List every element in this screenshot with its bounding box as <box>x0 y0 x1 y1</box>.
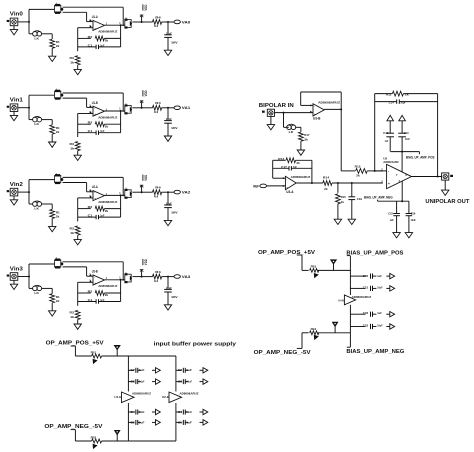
wire (output) <box>104 194 125 196</box>
svg-text:OP_AMP_POS_+5V: OP_AMP_POS_+5V <box>46 340 105 346</box>
ground (right) <box>152 369 156 371</box>
svg-text:BIAS_UP_AMP_NEG: BIAS_UP_AMP_NEG <box>346 349 404 355</box>
svg-text:1nF: 1nF <box>100 43 104 47</box>
svg-text:49.9: 49.9 <box>154 279 158 283</box>
op-amp U1-E power symbol <box>122 392 135 403</box>
jumper link LK1 <box>55 5 61 12</box>
wire <box>18 107 29 109</box>
svg-text:R17: R17 <box>304 133 310 137</box>
wire <box>42 33 53 35</box>
op-amp U2-B <box>93 275 104 285</box>
svg-text:C4: C4 <box>130 410 135 414</box>
resistor R1 <box>50 39 55 48</box>
bypass capacitor C22 <box>350 313 365 315</box>
jumper link LK10 <box>55 260 61 267</box>
resistor R12 (bipolar to summing node) <box>341 170 355 172</box>
svg-text:2k: 2k <box>304 137 308 141</box>
ground (right) <box>152 411 156 413</box>
svg-text:VA2: VA2 <box>182 191 191 195</box>
svg-text:C22: C22 <box>363 311 369 315</box>
wire <box>318 332 351 334</box>
wire <box>374 94 376 171</box>
svg-text:2k: 2k <box>297 161 301 165</box>
jumper link LK5 <box>33 117 38 122</box>
wire <box>332 182 383 184</box>
wire (feedback) <box>301 91 342 93</box>
wire (pos rail) <box>349 256 351 295</box>
svg-text:C1: C1 <box>88 129 93 133</box>
svg-text:C21: C21 <box>363 286 369 290</box>
ferrite bead FB3 <box>310 269 319 273</box>
resistor R5 <box>50 125 55 134</box>
ground <box>74 240 81 245</box>
svg-text:UNIPOLAR OUT: UNIPOLAR OUT <box>425 199 470 205</box>
capacitor C2 shunt <box>167 22 169 34</box>
jumper link LK11 <box>33 286 38 291</box>
svg-text:1uF: 1uF <box>390 218 394 222</box>
ground (right) <box>386 326 390 328</box>
wire <box>275 112 314 114</box>
op-amp U3-A (reference buffer) <box>285 176 296 189</box>
svg-text:+: + <box>388 182 390 186</box>
svg-text:R12: R12 <box>355 164 361 168</box>
feedback capacitor C1 <box>78 46 97 48</box>
svg-text:U4-B: U4-B <box>338 299 344 303</box>
svg-text:LK: LK <box>34 291 39 295</box>
wire <box>318 269 351 271</box>
svg-text:10pF: 10pF <box>400 101 406 105</box>
connector J6 (unipolar output) <box>442 173 449 180</box>
wire <box>122 262 124 280</box>
svg-text:+: + <box>94 281 96 285</box>
resistor R3 to ground <box>75 56 80 65</box>
capacitor C19 <box>351 183 353 197</box>
svg-text:AD8608ARUZ: AD8608ARUZ <box>98 30 117 34</box>
svg-text:VDD: VDD <box>144 259 148 265</box>
svg-text:U3-B: U3-B <box>313 116 321 120</box>
wire <box>122 7 124 25</box>
svg-text:BIAS_UP_AMP_POS: BIAS_UP_AMP_POS <box>346 250 404 256</box>
ground <box>49 56 56 61</box>
svg-text:VA1: VA1 <box>182 106 191 110</box>
svg-text:+: + <box>286 185 288 189</box>
ground <box>13 26 15 30</box>
svg-text:AD8608ARUZ: AD8608ARUZ <box>98 200 117 204</box>
ground <box>164 305 171 310</box>
wire (- input) <box>273 177 286 179</box>
wire <box>132 191 141 193</box>
svg-text:10uF: 10uF <box>411 218 416 222</box>
svg-text:FB3: FB3 <box>311 265 317 269</box>
svg-text:C1: C1 <box>88 298 93 302</box>
svg-text:+: + <box>94 112 96 116</box>
ferrite bead FB2 <box>92 439 102 443</box>
ground (right) <box>386 313 390 315</box>
wire <box>120 280 122 302</box>
jumper link LK4 <box>55 91 61 98</box>
svg-text:R14: R14 <box>323 175 330 179</box>
net tag VA0 <box>168 21 174 23</box>
wire <box>77 28 79 52</box>
wire <box>297 347 302 349</box>
svg-text:C5: C5 <box>178 420 183 424</box>
wire <box>71 429 76 431</box>
supply flag (neg) <box>393 233 400 238</box>
connector J4 (Vin3 input) <box>10 273 18 281</box>
svg-text:-: - <box>388 170 389 174</box>
svg-text:1k: 1k <box>70 146 74 150</box>
wire <box>122 93 124 111</box>
ground (right) <box>386 287 390 289</box>
ground <box>49 226 56 231</box>
ground (right) <box>200 369 204 371</box>
wire <box>340 109 342 170</box>
wire <box>28 108 30 120</box>
svg-text:U1-E: U1-E <box>114 395 121 399</box>
svg-text:VA0: VA0 <box>182 20 191 24</box>
svg-text:input buffer power supply: input buffer power supply <box>154 342 237 348</box>
wire <box>77 114 79 138</box>
svg-text:R15: R15 <box>341 195 346 199</box>
svg-text:AD8608ARUZ: AD8608ARUZ <box>180 391 199 395</box>
svg-text:2k: 2k <box>56 44 60 48</box>
svg-text:2k: 2k <box>56 130 60 134</box>
wire <box>63 11 87 13</box>
svg-text:22uF: 22uF <box>166 117 172 121</box>
svg-text:AD8608ARUZ: AD8608ARUZ <box>132 391 151 395</box>
svg-text:C13: C13 <box>404 131 409 135</box>
wire <box>283 113 285 128</box>
svg-text:1nF: 1nF <box>293 165 297 169</box>
svg-text:R2: R2 <box>88 290 93 294</box>
svg-text:1uF: 1uF <box>385 139 389 143</box>
svg-text:2k: 2k <box>105 293 109 297</box>
wire <box>63 176 124 178</box>
resistor R11 to ground <box>75 226 80 235</box>
ground <box>49 311 56 316</box>
power flag +5V <box>116 349 118 356</box>
connector J5 (bipolar input) <box>267 109 274 116</box>
svg-text:OP_AMP_POS_+5V: OP_AMP_POS_+5V <box>258 250 316 256</box>
wire <box>28 22 30 34</box>
op-amp U1-A <box>93 20 104 30</box>
ferrite bead L2 <box>125 20 131 28</box>
power flag VDD <box>141 101 143 108</box>
svg-text:10uF: 10uF <box>377 286 383 290</box>
svg-text:LK: LK <box>34 122 39 126</box>
ground (right) <box>200 381 204 383</box>
svg-text:Vin2: Vin2 <box>10 182 23 188</box>
wire (output) <box>104 279 125 281</box>
svg-text:16V: 16V <box>171 211 178 215</box>
svg-text:C15: C15 <box>388 211 393 215</box>
svg-text:-: - <box>94 20 95 24</box>
bypass capacitor C5' <box>176 421 182 423</box>
wire <box>28 277 30 289</box>
resistor R13 <box>50 294 55 303</box>
output port arrow <box>444 180 446 190</box>
wire <box>120 25 122 47</box>
wire <box>18 276 29 278</box>
svg-text:C1: C1 <box>88 214 93 218</box>
op-amp U1-B <box>93 106 104 116</box>
feedback resistor R6 <box>78 123 91 125</box>
svg-text:C17: C17 <box>281 165 287 169</box>
ground <box>13 196 15 200</box>
svg-text:AD8608ARUZ: AD8608ARUZ <box>318 101 340 105</box>
wire <box>297 254 302 256</box>
power flag VDD <box>141 270 143 277</box>
wire <box>28 192 30 204</box>
svg-text:C2: C2 <box>130 368 135 372</box>
svg-text:Vin0: Vin0 <box>10 12 23 18</box>
ground <box>164 136 171 141</box>
wire <box>71 345 76 347</box>
ground (right) <box>200 421 204 423</box>
svg-text:2k: 2k <box>105 124 109 128</box>
svg-text:+: + <box>94 197 96 201</box>
svg-text:VDD: VDD <box>144 174 148 180</box>
wire <box>28 180 30 193</box>
wire <box>63 97 87 99</box>
svg-text:C5: C5 <box>130 420 135 424</box>
svg-text:2k: 2k <box>56 214 60 218</box>
jumper link LK2 <box>33 32 38 37</box>
svg-text:22uF: 22uF <box>166 31 172 35</box>
op-amp U5 AD8021 <box>387 164 412 188</box>
svg-text:C12: C12 <box>383 131 389 135</box>
feedback capacitor C13 <box>78 301 97 303</box>
svg-text:2k: 2k <box>56 299 60 303</box>
capacitor C10 shunt <box>167 192 169 204</box>
bypass capacitor C15 <box>396 201 398 213</box>
wire <box>18 21 29 23</box>
ground <box>164 50 171 55</box>
svg-text:22uF: 22uF <box>166 286 172 290</box>
svg-text:-: - <box>94 275 95 279</box>
svg-text:U3-A: U3-A <box>286 190 294 194</box>
net tag VA3 <box>168 276 174 278</box>
svg-text:R2: R2 <box>88 205 93 209</box>
ferrite bead L5 <box>125 274 131 282</box>
wire <box>120 111 122 133</box>
svg-text:C2: C2 <box>178 368 183 372</box>
wire <box>63 182 87 184</box>
feedback capacitor C14 <box>375 101 397 103</box>
svg-text:+: + <box>94 26 96 30</box>
svg-text:1nF: 1nF <box>100 214 104 218</box>
svg-text:1uF: 1uF <box>377 311 382 315</box>
resistor R8 49.9 <box>142 107 153 109</box>
ground <box>74 155 81 160</box>
svg-text:U2-A: U2-A <box>92 185 98 189</box>
wire <box>300 92 302 105</box>
svg-text:FB4: FB4 <box>311 327 317 331</box>
wire (output) <box>412 176 442 178</box>
svg-text:U1-A: U1-A <box>92 15 98 19</box>
svg-text:C23: C23 <box>363 324 369 328</box>
svg-text:7: 7 <box>396 173 398 177</box>
ground (right) <box>152 381 156 383</box>
svg-text:1k: 1k <box>70 231 74 235</box>
svg-text:16V: 16V <box>171 295 178 299</box>
svg-text:0.1uF: 0.1uF <box>186 380 192 384</box>
power flag -5V <box>334 326 336 332</box>
wire <box>296 126 301 128</box>
bypass capacitor C20 <box>350 275 365 277</box>
ferrite bead L3 <box>125 105 131 113</box>
feedback resistor R11 <box>375 93 393 95</box>
resistor R15 to ground <box>75 310 80 319</box>
bypass capacitor C5 <box>128 421 134 423</box>
svg-text:R11: R11 <box>386 93 392 97</box>
svg-text:0.1uF: 0.1uF <box>186 410 192 414</box>
resistor R14 <box>323 181 332 186</box>
ground <box>270 116 272 124</box>
svg-text:2k: 2k <box>356 173 360 177</box>
wire <box>63 266 87 268</box>
svg-text:16V: 16V <box>171 40 178 44</box>
svg-text:C1: C1 <box>88 43 93 47</box>
svg-text:C4: C4 <box>178 410 183 414</box>
svg-text:LK: LK <box>34 36 39 40</box>
svg-text:C19: C19 <box>357 197 363 201</box>
svg-text:-: - <box>286 177 287 181</box>
svg-text:0.1uF: 0.1uF <box>139 380 145 384</box>
ground <box>334 219 341 224</box>
svg-text:R3: R3 <box>70 311 75 315</box>
svg-text:R4: R4 <box>155 186 161 190</box>
svg-text:REF: REF <box>253 184 259 188</box>
svg-text:49.9: 49.9 <box>154 110 158 114</box>
power flag VDD <box>141 185 143 192</box>
svg-text:FB1: FB1 <box>91 351 97 355</box>
wire (- input) <box>375 170 387 172</box>
feedback capacitor C17 <box>273 167 290 169</box>
wire <box>102 440 129 442</box>
resistor R15 to ground <box>337 183 339 193</box>
ferrite bead FB1 <box>92 354 102 358</box>
svg-text:22uF: 22uF <box>166 202 172 206</box>
ground (right) <box>200 411 204 413</box>
svg-text:R3: R3 <box>70 56 75 60</box>
ground <box>13 112 15 116</box>
svg-text:LK: LK <box>289 130 294 134</box>
svg-text:U2-B: U2-B <box>92 270 98 274</box>
ferrite bead L4 <box>125 190 131 198</box>
wire <box>132 21 141 23</box>
ground <box>13 280 15 284</box>
feedback resistor R2 <box>78 37 91 39</box>
svg-text:1k: 1k <box>70 61 74 65</box>
resistor R4 49.9 <box>142 21 153 23</box>
svg-text:6: 6 <box>406 173 408 177</box>
svg-text:AD8608ARUZ: AD8608ARUZ <box>98 284 117 288</box>
wire <box>77 282 79 306</box>
wire (+ input) <box>78 281 93 283</box>
wire (+ input) <box>78 113 93 115</box>
resistor R16 49.9 <box>142 276 153 278</box>
svg-text:Vin3: Vin3 <box>10 266 23 272</box>
bypass capacitor C16 <box>408 201 410 213</box>
svg-text:R13: R13 <box>278 157 284 161</box>
bypass capacitor C2' <box>176 369 182 371</box>
svg-text:OP_AMP_NEG_-5V: OP_AMP_NEG_-5V <box>44 424 103 430</box>
svg-text:FB2: FB2 <box>91 436 97 440</box>
svg-text:VA3: VA3 <box>182 275 191 279</box>
svg-text:R2: R2 <box>88 121 93 125</box>
wire (output) <box>104 24 125 26</box>
wire (V- pin) <box>401 181 403 201</box>
svg-text:10uF: 10uF <box>405 137 410 141</box>
resistor R7 to ground <box>75 142 80 151</box>
svg-text:R3: R3 <box>70 142 75 146</box>
wire <box>28 95 30 108</box>
resistor R17 2k <box>299 132 304 141</box>
connector J3 (Vin2 input) <box>10 188 18 196</box>
svg-text:AD8608ARUZ: AD8608ARUZ <box>352 295 372 299</box>
svg-text:2k: 2k <box>324 187 328 191</box>
svg-text:-: - <box>314 104 315 108</box>
op-amp U4-B power symbol <box>344 295 355 305</box>
capacitor C14 shunt <box>167 277 169 289</box>
ground (right) <box>152 421 156 423</box>
svg-text:C14: C14 <box>389 100 395 104</box>
feedback resistor R10 <box>78 208 91 210</box>
svg-text:U2-E: U2-E <box>162 395 169 399</box>
bypass capacitor C12 <box>389 121 391 126</box>
feedback capacitor C5 <box>78 132 97 134</box>
svg-text:C3: C3 <box>178 380 183 384</box>
net tag VA1 <box>168 107 174 109</box>
svg-text:-: - <box>94 106 95 110</box>
wire <box>63 92 124 94</box>
svg-text:AD8021ARZ: AD8021ARZ <box>383 160 399 164</box>
net tag VA2 <box>168 191 174 193</box>
svg-text:C20: C20 <box>363 274 369 278</box>
svg-text:2k: 2k <box>405 93 409 97</box>
ground (right) <box>386 275 390 277</box>
svg-text:R4: R4 <box>155 270 161 274</box>
svg-text:49.9: 49.9 <box>154 24 158 28</box>
svg-text:R4: R4 <box>155 15 161 19</box>
svg-text:BIAS_UP_AMP_NEG: BIAS_UP_AMP_NEG <box>364 196 393 200</box>
svg-text:-: - <box>94 191 95 195</box>
wire <box>437 94 439 177</box>
wire <box>311 160 313 183</box>
wire (+ input) <box>78 27 93 29</box>
svg-text:U1-B: U1-B <box>92 101 98 105</box>
resistor R12 49.9 <box>142 191 153 193</box>
ground <box>74 69 81 74</box>
wire <box>132 276 141 278</box>
wire <box>63 261 124 263</box>
svg-text:16V: 16V <box>171 126 178 130</box>
wire <box>122 177 124 195</box>
wire <box>63 6 124 8</box>
wire (+ input) <box>78 197 93 199</box>
wire <box>102 355 176 357</box>
wire <box>267 185 286 187</box>
ferrite bead FB4 <box>310 331 319 335</box>
svg-text:Vin1: Vin1 <box>10 98 23 104</box>
op-amp U2-A <box>93 191 104 201</box>
svg-text:R2: R2 <box>88 35 93 39</box>
bypass capacitor C4 <box>128 411 134 413</box>
wire <box>132 107 141 109</box>
bypass capacitor C21 <box>350 287 365 289</box>
bypass capacitor C4' <box>176 411 182 413</box>
